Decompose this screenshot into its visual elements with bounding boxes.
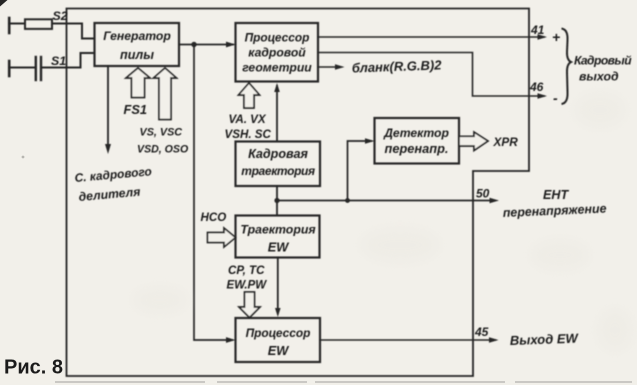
wire output 41 <box>318 36 544 38</box>
hollow arrow NCO right <box>208 228 236 247</box>
box U2 frame geometry processor <box>236 23 319 82</box>
arrowhead pin41 <box>538 34 548 40</box>
svg-text:EW: EW <box>268 343 290 358</box>
wire capacitor to box1 <box>41 53 95 68</box>
svg-text:41: 41 <box>530 23 545 37</box>
arrowhead pin45 <box>489 337 499 343</box>
hollow arrow VA.VX up <box>239 83 260 108</box>
wire branch to detector <box>348 141 372 201</box>
svg-text:45: 45 <box>474 325 489 339</box>
svg-text:Процессор: Процессор <box>246 326 311 340</box>
wire vertical bus x=194 down to EW processor <box>194 45 232 341</box>
svg-text:траектория: траектория <box>241 164 315 178</box>
svg-text:геометрии: геометрии <box>242 61 312 75</box>
arrowhead into box2 <box>226 42 236 48</box>
arrowhead pin50 <box>490 198 500 204</box>
svg-text:бланк(R.G.B)2: бланк(R.G.B)2 <box>352 57 443 75</box>
hollow arrow CP,TC down <box>239 292 260 318</box>
svg-text:VS, VSC: VS, VSC <box>140 127 183 139</box>
svg-text:Траектория: Траектория <box>240 223 316 237</box>
arrowhead into detector <box>365 138 375 144</box>
paper mottling <box>132 92 633 352</box>
svg-text:Кадровая: Кадровая <box>248 147 308 161</box>
arrowhead pin46 <box>538 93 548 99</box>
arrowhead into box2 bottom <box>274 83 280 92</box>
svg-text:Генератор: Генератор <box>103 29 171 43</box>
svg-text:Кадровый: Кадровый <box>574 54 632 68</box>
wire pin 50 horizontal <box>277 200 495 202</box>
svg-text:XPR: XPR <box>493 135 519 149</box>
junction node at 194,44.5 <box>191 42 196 47</box>
svg-text:S2: S2 <box>53 9 68 23</box>
svg-text:пилы: пилы <box>120 48 154 62</box>
svg-text:FS1: FS1 <box>124 102 147 117</box>
svg-text:Процессор: Процессор <box>245 31 310 45</box>
hollow arrow FS1 up <box>126 68 150 98</box>
arrowhead into box6 top <box>275 308 281 317</box>
arrowhead blank <box>335 64 345 70</box>
svg-text:выход: выход <box>579 70 619 84</box>
wire trajectory to box2 <box>276 86 278 142</box>
brace frame output <box>562 29 572 105</box>
svg-text:перенапр.: перенапр. <box>385 141 449 156</box>
wire resistor to box1 <box>52 24 95 39</box>
box U6 EW processor <box>236 318 321 362</box>
arrowhead down to divider <box>105 144 111 154</box>
hollow arrow XPR right <box>459 132 488 151</box>
wire box1 to box2 <box>179 44 233 46</box>
svg-text:EW: EW <box>268 240 290 255</box>
svg-text:ЕНТ: ЕНТ <box>543 188 569 202</box>
svg-text:VSH. SC: VSH. SC <box>225 128 272 141</box>
capacitor S1 terminal <box>8 61 11 76</box>
box U5 EW trajectory <box>236 216 320 258</box>
svg-text:+: + <box>552 29 560 45</box>
wire S2 terminal to resistor <box>8 18 11 33</box>
svg-text:кадровой: кадровой <box>248 46 306 60</box>
svg-text:CP, TC: CP, TC <box>228 264 265 277</box>
svg-text:VSD, OSO: VSD, OSO <box>137 144 189 156</box>
svg-text:Детектор: Детектор <box>383 126 449 140</box>
IC boundary frame <box>67 9 530 377</box>
junction node at 277,200.5 <box>274 198 279 203</box>
box U4 overvoltage detector <box>375 118 460 164</box>
hollow arrow VS,VSC up <box>154 68 177 120</box>
svg-text:Рис. 8: Рис. 8 <box>4 357 63 379</box>
wire box1 bottom down <box>107 66 109 146</box>
wire box5 to box6 <box>277 258 279 313</box>
svg-text:EW.PW: EW.PW <box>227 279 268 292</box>
svg-text:Выход EW: Выход EW <box>510 331 580 348</box>
wire output 45 <box>320 339 495 341</box>
wire blank output <box>318 66 340 68</box>
svg-text:VA. VX: VA. VX <box>229 113 267 126</box>
svg-text:46: 46 <box>529 80 544 94</box>
svg-text:50: 50 <box>476 187 490 201</box>
svg-text:S1: S1 <box>51 54 66 68</box>
wire output 46 <box>318 53 544 97</box>
wire box3 to box5 <box>276 186 278 216</box>
scan edge artifact bottom <box>55 381 632 383</box>
arrowhead into box6 left <box>226 337 236 343</box>
svg-text:-: - <box>553 90 558 106</box>
box U3 frame trajectory <box>236 142 321 187</box>
svg-text:НСО: НСО <box>201 211 227 224</box>
resistor S2 <box>25 19 52 29</box>
scan speck top-left <box>0 0 8 7</box>
box U1 generator <box>95 23 180 66</box>
capacitor C1 plates <box>35 57 37 80</box>
junction node at 347.5,200.5 <box>345 198 350 203</box>
